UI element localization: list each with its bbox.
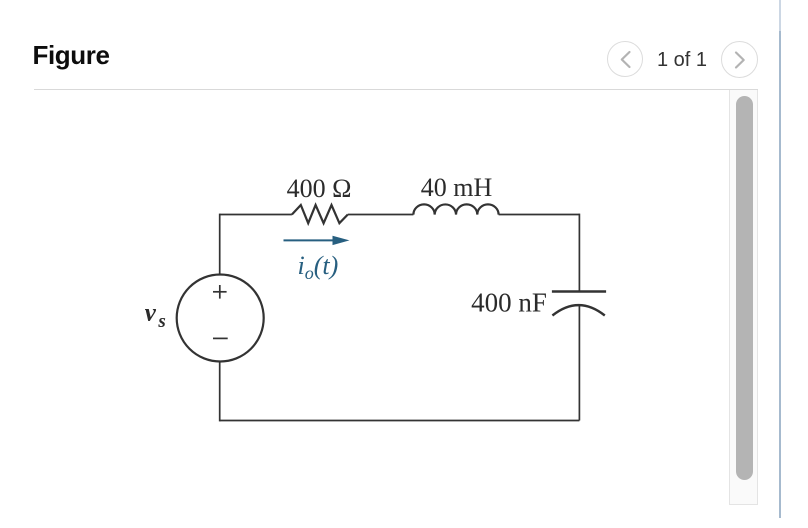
- page indicator "1 of 1": [654, 50, 710, 70]
- svg-text:40 mH: 40 mH: [421, 173, 493, 202]
- right panel border (main segment): [779, 31, 781, 518]
- scrollbar thumb: [736, 96, 753, 480]
- wire: top-left segment to resistor: [220, 214, 292, 216]
- wire: right side down to capacitor: [578, 214, 580, 292]
- svg-text:vs: vs: [145, 300, 166, 333]
- svg-text:400 nF: 400 nF: [471, 288, 547, 318]
- svg-text:400 Ω: 400 Ω: [287, 174, 352, 203]
- header title "Figure": [33, 42, 110, 68]
- capacitor 400 nF bottom curved plate: [552, 305, 604, 315]
- header divider: [34, 89, 758, 90]
- wire: bottom segment: [220, 420, 580, 422]
- label 400 nF: [471, 288, 547, 318]
- next page button: [721, 41, 758, 78]
- resistor 400 ohm zigzag: [292, 205, 348, 223]
- minus polarity mark: [213, 337, 228, 339]
- right panel border (light top segment): [779, 0, 781, 31]
- wire: left side top to source: [219, 214, 221, 276]
- voltage source vs circle: [177, 275, 264, 362]
- capacitor 400 nF top plate: [552, 290, 606, 292]
- wire: inductor to top-right corner: [499, 214, 580, 216]
- wire: between resistor and inductor: [348, 214, 414, 216]
- label 40 mH: [421, 173, 493, 202]
- scrollbar track: [729, 90, 758, 505]
- wire: source down to bottom-left corner: [219, 361, 221, 422]
- label io(t): [298, 251, 339, 283]
- label vs: [145, 300, 166, 333]
- plus polarity mark: [213, 285, 227, 299]
- inductor 40 mH coils: [413, 204, 498, 214]
- wire: capacitor down to bottom-right corner: [578, 306, 580, 421]
- label 400 ohm: [287, 174, 352, 203]
- current arrow io(t): [284, 236, 350, 245]
- svg-text:io(t): io(t): [298, 251, 339, 283]
- prev page button: [607, 41, 643, 77]
